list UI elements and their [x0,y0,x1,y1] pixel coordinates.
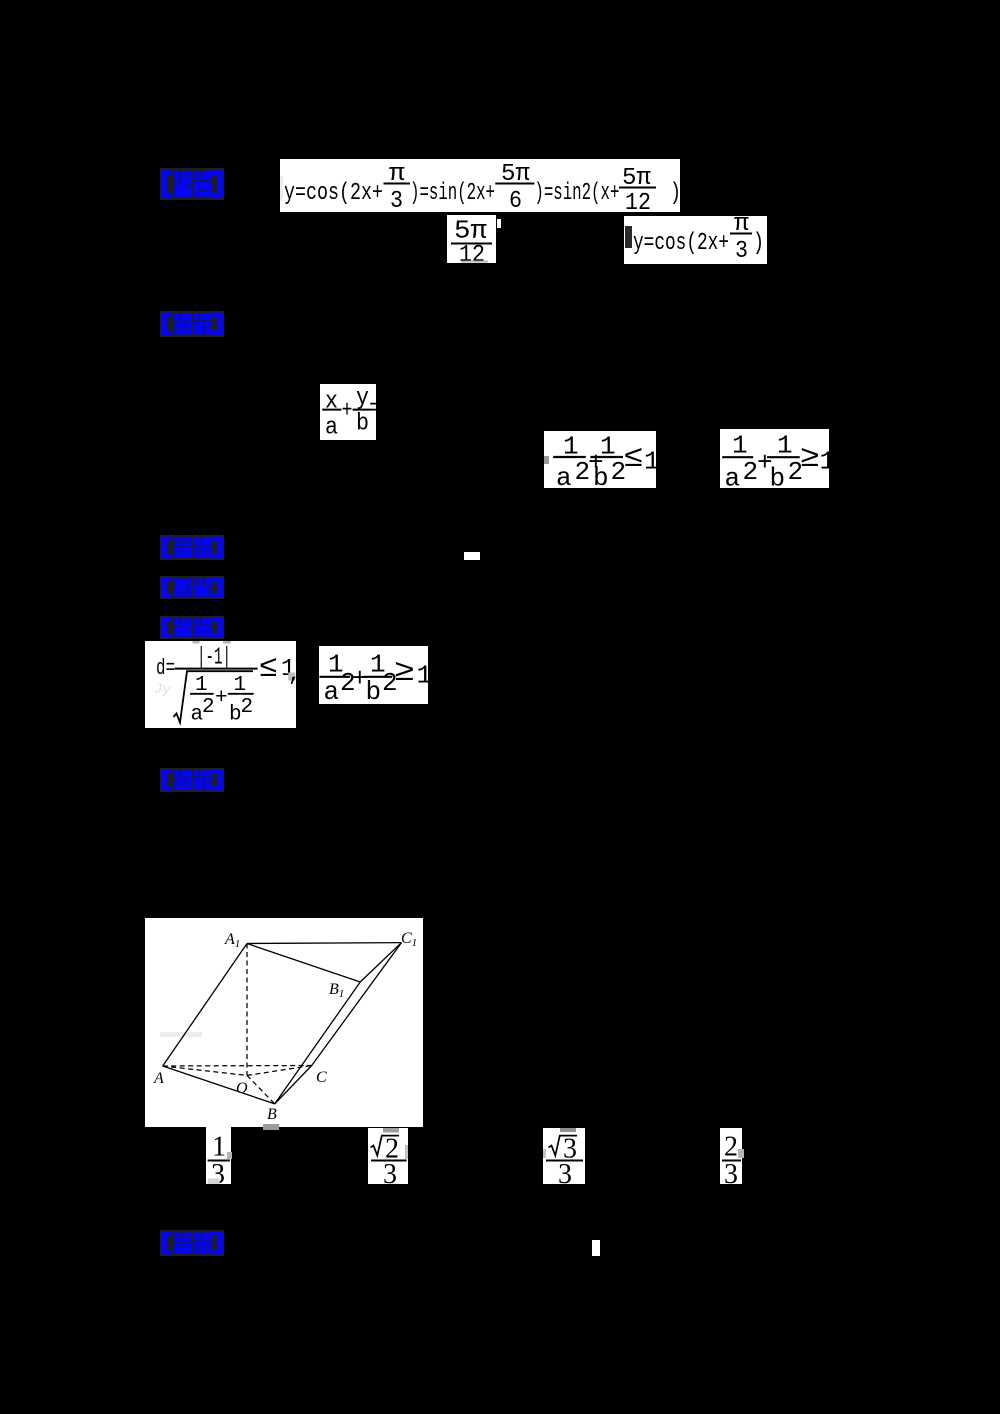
dashed OC [247,1066,312,1076]
svg-text:1: 1 [820,446,830,476]
svg-text:1: 1 [212,1132,226,1163]
vertex labels [153,930,417,1123]
svg-text:2: 2 [724,1132,738,1163]
svg-text:b: b [356,411,369,438]
gray tab right of 2/3 [738,1149,744,1158]
svg-text:): ) [753,230,764,257]
edge B1C1 [360,943,401,982]
svg-text:A1: A1 [224,931,240,950]
svg-text:5π: 5π [454,216,487,246]
svg-text:1: 1 [777,431,793,461]
svg-text:)=sin2(x+: )=sin2(x+ [534,180,619,207]
svg-text:,: , [288,662,296,687]
formula box 5: 1/a^2 + 1/b^2 <= 1 [544,431,656,488]
formula box 4: x/a + y/b = [320,384,376,440]
formula box 6: 1/a^2 + 1/b^2 >= 1 [720,429,829,488]
svg-text:)=sin(2x+: )=sin(2x+ [410,180,495,207]
dashed A1O [246,944,248,1076]
formula box 1: y=cos(2x+pi/3)=sin(2x+5pi/6)=sin2(x+5pi/12) [280,159,680,212]
svg-text:b: b [366,677,382,704]
label fenxi1 [160,576,224,599]
gray mark under B [263,1124,279,1130]
svg-text:3: 3 [383,1159,397,1184]
svg-text:|-1|: |-1| [197,645,231,672]
edge C1C [312,943,402,1066]
svg-text:π: π [734,216,749,238]
option 2/3 [720,1128,742,1184]
svg-text:3: 3 [390,188,403,212]
gray tab right of 1/3 [227,1152,232,1159]
svg-text:≥: ≥ [394,656,415,690]
edge A1B1 [247,944,360,983]
svg-text:a: a [324,677,340,704]
svg-text:≤: ≤ [624,442,644,476]
edge AB [163,1066,275,1104]
svg-text:1: 1 [417,661,429,691]
svg-text:y=cos(2x+: y=cos(2x+ [284,180,383,207]
svg-text:2: 2 [743,457,759,487]
svg-text:x: x [325,389,338,416]
label jieda1 [160,168,224,200]
svg-text:C1: C1 [401,930,417,949]
figure box: prism ABC-A1B1C1 [145,918,423,1127]
formula box 8: 1/a^2 + 1/b^2 >= 1 [319,646,428,704]
svg-text:≤: ≤ [259,652,278,686]
formula box 3: y=cos(2x+pi/3) [624,216,767,264]
svg-text:C: C [316,1069,327,1086]
svg-text:a: a [325,415,338,441]
option sqrt3/3 [543,1128,585,1184]
svg-text:=: = [369,396,376,423]
svg-text:3: 3 [724,1159,738,1184]
option 1/3 [206,1127,231,1184]
white tick mark [592,1240,600,1256]
svg-text:6: 6 [509,188,522,212]
edge A1C1 [247,942,402,945]
svg-text:Jy: Jy [154,682,171,698]
svg-text:a: a [556,463,572,488]
svg-text:π: π [389,161,405,188]
formula box 7: d = |-1| / sqrt(1/a^2+1/b^2) <= 1, [145,641,296,728]
svg-text:1: 1 [732,431,748,461]
svg-text:A: A [153,1070,164,1087]
svg-text:b: b [770,463,786,488]
svg-text:5π: 5π [501,161,530,188]
label kaodian1 [160,535,224,560]
option sqrt2/3 [368,1128,408,1184]
dashed AC [163,1065,312,1068]
dashed AO [163,1066,247,1075]
svg-text:b: b [593,463,609,488]
svg-text:12: 12 [625,190,651,212]
faint artifact line [160,1032,202,1037]
svg-text:O: O [236,1080,248,1097]
svg-text:≥: ≥ [800,442,820,476]
edge A1A [163,944,247,1067]
tiny white speck right of box 2 [497,219,501,228]
svg-text:y=cos(2x+: y=cos(2x+ [633,230,729,257]
svg-text:1: 1 [644,446,656,476]
label kaodian2 [160,1230,224,1256]
dashed OB [247,1075,275,1104]
svg-text:B: B [267,1106,277,1123]
label dianping1 [160,311,224,337]
edge BC [275,1066,312,1104]
svg-text:+: + [215,687,228,710]
edge B1B [275,982,361,1104]
svg-text:3: 3 [558,1159,572,1184]
svg-text:3: 3 [735,238,748,264]
label dianping2 [160,768,224,792]
svg-text:a: a [725,463,741,488]
svg-text:B1: B1 [329,981,344,1000]
svg-text:y: y [356,385,369,412]
svg-text:2: 2 [241,696,254,719]
svg-text:+: + [342,398,353,425]
svg-text:5π: 5π [622,165,651,192]
svg-text:2: 2 [202,696,215,719]
label jieda2 [160,616,224,639]
svg-text:): ) [670,180,680,207]
formula box 2: 5pi/12 [447,215,496,263]
white dash mark [464,552,480,560]
svg-text:d=: d= [156,656,175,681]
svg-text:12: 12 [459,242,485,263]
